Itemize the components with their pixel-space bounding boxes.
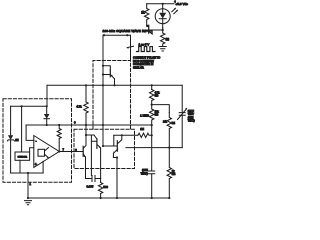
node collector join bbox=[85, 134, 87, 136]
transistor Q3 bbox=[96, 139, 98, 149]
node rail x151 bbox=[151, 84, 153, 86]
transistor Q2 bbox=[82, 146, 84, 156]
svg-text:5%: 5% bbox=[172, 122, 176, 125]
node LED cathode bbox=[162, 29, 164, 31]
node bus x151 bbox=[151, 124, 153, 126]
transistor Q5 PNP collector tie bbox=[103, 66, 110, 70]
wire connect line solid bbox=[130, 35, 132, 58]
variable arrow bbox=[178, 109, 187, 120]
dashed box top-center (driver) bbox=[93, 61, 131, 130]
resistor R2 68 bbox=[161, 28, 165, 47]
wire input corner to connect line bbox=[103, 34, 131, 36]
svg-text:SIMILAR: SIMILAR bbox=[133, 66, 144, 70]
node PNP tie top bbox=[102, 65, 104, 67]
annotation arrow to input bbox=[127, 46, 133, 47]
inner block bbox=[38, 149, 45, 156]
wire input stub to Q1 base bbox=[145, 29, 149, 31]
node x46 bbox=[46, 105, 48, 107]
svg-text:0.005: 0.005 bbox=[87, 184, 94, 188]
wire bias column x=103 bbox=[102, 35, 104, 146]
node x151 y104 bbox=[151, 104, 153, 106]
feedback resistor R3 bbox=[58, 124, 60, 126]
wire rail left corner down bbox=[46, 85, 48, 106]
svg-text:1M: 1M bbox=[140, 127, 144, 131]
svg-text:TEXT): TEXT) bbox=[188, 120, 195, 123]
sensor box bbox=[15, 152, 30, 160]
resistor R6 horizontal bbox=[138, 133, 152, 137]
node top rail to LED bbox=[162, 3, 164, 5]
resistor R10 x169 low bbox=[167, 148, 171, 198]
resistor R1 1k bbox=[145, 4, 149, 25]
LED CR1 bbox=[155, 9, 170, 24]
wire sensor out to +in bbox=[30, 148, 34, 152]
node bus x103 bbox=[102, 124, 104, 126]
node input corner bbox=[103, 34, 105, 36]
ground GND1 bbox=[159, 47, 166, 52]
svg-text:TEXT): TEXT) bbox=[141, 172, 148, 175]
transistor Q5 emitter bbox=[111, 75, 115, 85]
node rail x103 bbox=[102, 84, 104, 86]
capacitor C2 bbox=[149, 171, 155, 174]
svg-text:5%: 5% bbox=[155, 114, 159, 117]
transistor Q4 bbox=[113, 135, 115, 146]
ground GND2 bbox=[25, 201, 32, 205]
wire stub opamp vminus bbox=[42, 161, 44, 173]
node Q1 collector bbox=[146, 25, 148, 27]
svg-text:1N: 1N bbox=[15, 138, 18, 142]
transistor Q1 bbox=[147, 25, 149, 27]
wire main rail bbox=[47, 84, 182, 86]
dashed box center (pair) bbox=[74, 129, 135, 168]
svg-text:5%: 5% bbox=[172, 173, 176, 176]
svg-text:1 MEG: 1 MEG bbox=[140, 113, 149, 117]
transistor Q5 base wire bbox=[103, 74, 110, 76]
resistor R8 bbox=[150, 105, 154, 125]
wire top interior bbox=[11, 105, 47, 107]
resistor R5 560 bbox=[98, 179, 102, 199]
diode D1 bbox=[46, 106, 48, 114]
svg-text:-: - bbox=[35, 138, 37, 143]
wire connect line dashed bbox=[130, 58, 132, 129]
wire rail y147 bbox=[126, 147, 182, 149]
LED light arrows bbox=[172, 8, 178, 13]
wire bus inverting input bbox=[26, 125, 34, 140]
svg-text:+5.0 Vdc: +5.0 Vdc bbox=[176, 2, 189, 6]
svg-text:1 µs 5 V: 1 µs 5 V bbox=[139, 42, 150, 46]
node bus x86 bbox=[85, 124, 87, 126]
node rail x114 bbox=[113, 84, 115, 86]
zener VR1 bbox=[10, 106, 12, 135]
wire +5V top rail bbox=[147, 3, 174, 5]
wire sensor feed bbox=[21, 106, 23, 152]
svg-text:4.7k: 4.7k bbox=[76, 105, 82, 109]
wire bus y125 bbox=[26, 124, 152, 126]
column x151 bbox=[151, 85, 153, 89]
op-amp U1 bbox=[34, 136, 59, 168]
node rail x86 bbox=[85, 84, 87, 86]
wire collector bus Q4 bbox=[114, 134, 138, 136]
wire mirror top bbox=[86, 134, 94, 136]
wire op-amp output to Q2 base bbox=[59, 151, 83, 153]
resistor R9 x169 bbox=[167, 113, 171, 148]
wire Q1 emitter to LED cathode node bbox=[149, 29, 161, 31]
wire x151 down bbox=[151, 125, 153, 171]
node x21 bbox=[21, 105, 23, 107]
pulse waveform bbox=[137, 47, 156, 52]
resistor R4 on x86 bbox=[84, 85, 88, 125]
svg-text:1k: 1k bbox=[141, 11, 145, 15]
svg-text:68: 68 bbox=[166, 38, 170, 42]
dashed box left (sensor amp) bbox=[3, 99, 72, 183]
svg-text:6: 6 bbox=[74, 121, 76, 125]
transistor Q5 bar bbox=[109, 70, 111, 77]
svg-text:SENSOR: SENSOR bbox=[18, 157, 28, 159]
svg-text:5%: 5% bbox=[155, 95, 159, 98]
wire to x169 bbox=[152, 105, 170, 113]
column x182 self test bbox=[181, 85, 183, 112]
wire x86 bus to collector node bbox=[85, 125, 87, 135]
wire ground column bbox=[27, 173, 29, 198]
wire stub sensor gnd bbox=[19, 160, 21, 173]
svg-text:560: 560 bbox=[103, 185, 108, 189]
wire box bottom bbox=[11, 172, 44, 174]
node bus x46 bbox=[46, 124, 48, 126]
capacitor C1 bbox=[90, 141, 92, 175]
node connect corner bbox=[126, 34, 128, 36]
node ground tap bbox=[27, 172, 29, 174]
wire bottom rail bbox=[28, 197, 169, 199]
node PNP tie base bbox=[102, 73, 104, 75]
resistor R7 bbox=[150, 90, 154, 105]
svg-text:100-kHz SQUARE WAVE INPUT: 100-kHz SQUARE WAVE INPUT bbox=[103, 29, 153, 33]
